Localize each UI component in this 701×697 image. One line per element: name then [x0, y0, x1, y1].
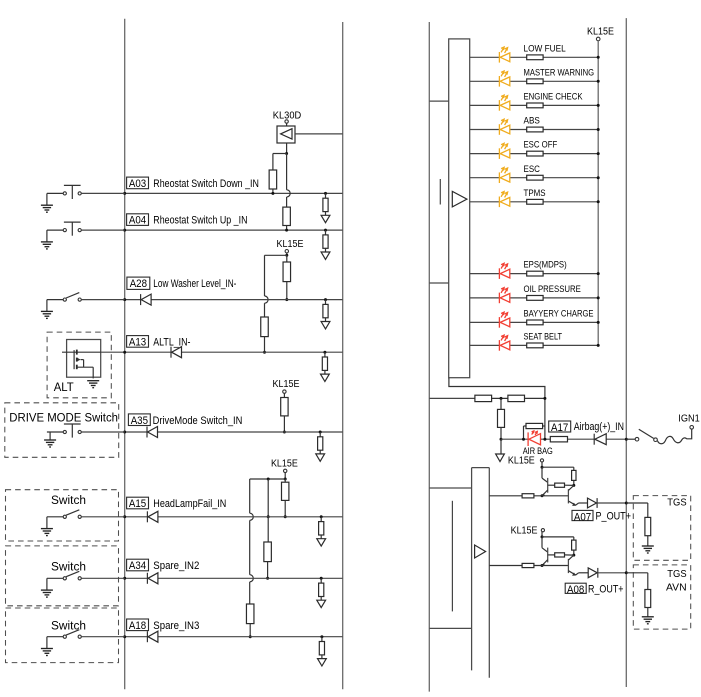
svg-text:Airbag(+)_IN: Airbag(+)_IN	[574, 421, 624, 433]
ground G7 (A18 switch)	[46, 637, 48, 649]
connector X2 key mark	[451, 501, 453, 612]
pin box A34	[127, 559, 149, 571]
svg-text:A34: A34	[129, 560, 146, 572]
wire: Q1 base	[548, 554, 555, 556]
node: KL15E-1 branch	[285, 254, 288, 257]
pin box A18	[127, 619, 149, 631]
wire: R to A04 row	[286, 226, 288, 231]
resistor R-ab1	[475, 395, 492, 401]
pin box A07	[572, 510, 593, 520]
resistor R-TGS2	[645, 590, 651, 608]
svg-text:IGN1: IGN1	[678, 413, 700, 424]
wire: R to node X	[573, 550, 575, 555]
diode D-A35	[146, 427, 148, 438]
svg-text:Rheostat Switch Up _IN: Rheostat Switch Up _IN	[153, 215, 247, 227]
wire: emitter to diode	[576, 573, 579, 575]
node: airbag on outer rail	[625, 438, 628, 441]
node: A34 bus junction	[123, 577, 126, 580]
lamp LED-yellow ESC OFF	[498, 148, 500, 159]
svg-text:A03: A03	[129, 178, 146, 190]
resistor R-ENGINE CHECK	[527, 103, 543, 108]
switch S6 (lever, A34)	[47, 577, 63, 579]
wire: left-section right vertical rail	[342, 22, 344, 689]
diode D-A34	[146, 573, 148, 584]
svg-text:SEAT BELT: SEAT BELT	[524, 332, 563, 343]
ground G4 (A35 switch)	[49, 432, 51, 440]
node: A15 bus junction	[123, 515, 126, 518]
wire: R to A03 row	[272, 189, 274, 193]
pin box A28	[127, 277, 150, 289]
wire: A13 row	[101, 351, 342, 353]
resistor R-A35 pull-up	[281, 398, 288, 416]
pin box A08	[565, 583, 586, 593]
wire: KL15E-3 stub	[284, 473, 286, 479]
dashed box Switch 2	[6, 546, 119, 606]
svg-text:ALT: ALT	[54, 382, 74, 394]
wire: KL15E stub	[541, 532, 543, 537]
wire: KL15E bus vertical	[597, 41, 599, 346]
resistor R-airbag parallel	[523, 426, 525, 439]
wire: Q1 base	[548, 484, 555, 486]
node: KL15E stage	[541, 466, 544, 469]
node: pull-up on A04	[285, 229, 288, 232]
diode D-airbag	[593, 434, 595, 445]
wire: Q1 collector	[541, 467, 543, 478]
wire: ABS row	[470, 129, 599, 131]
pin box A13	[127, 336, 149, 348]
svg-text:A13: A13	[129, 337, 146, 349]
svg-text:Spare_IN3: Spare_IN3	[153, 620, 199, 632]
node: branch tap x268.2	[267, 478, 270, 481]
wire: stage top rail	[542, 466, 574, 468]
resistor R-pulldown A35	[319, 431, 322, 434]
wire: stage top rail	[542, 536, 574, 538]
wire: coil squiggle to IGN1	[657, 429, 691, 444]
node: ENGINE CHECK on KL15E bus	[597, 104, 600, 107]
svg-text:A17: A17	[551, 422, 568, 434]
IC block U2 (output driver)	[472, 467, 490, 469]
wire: leg x268.2 down to A15	[267, 479, 269, 517]
wire: MASTER WARNING row	[470, 80, 599, 82]
node: pull-up on A34	[266, 577, 269, 580]
node: TPMS on KL15E bus	[597, 200, 600, 203]
terminal: airbag contact a	[626, 438, 635, 440]
wire: KL30D down to branch node	[286, 143, 288, 154]
node: airbag LED right	[543, 438, 546, 441]
connector X1 top edge	[429, 100, 448, 102]
wire: EPS(MDPS) row	[470, 273, 599, 275]
svg-text:P_OUT+: P_OUT+	[596, 511, 632, 523]
resistor R-pulldown A13	[323, 351, 326, 354]
wire: leg x249.7 between rows	[249, 520, 251, 574]
ground G-TGS2	[647, 608, 649, 617]
resistor R-pulldown A18	[320, 635, 323, 638]
dashed box TGS AVN	[633, 565, 690, 629]
node: pull-up on A13	[263, 351, 266, 354]
wire: leg x268.2 to R	[267, 517, 269, 542]
wire: R_OUT into TGS AVN	[626, 572, 648, 574]
lamp LED-red EPS(MDPS)	[498, 268, 500, 279]
node: LOW FUEL on KL15E bus	[597, 56, 600, 59]
switch S-IGN (blade)	[639, 429, 654, 438]
wire: R to node X 2	[565, 554, 574, 556]
wire: R to A15 row	[284, 500, 286, 516]
terminal KL15E stage	[541, 529, 544, 532]
switch S5 (lever, A15)	[47, 516, 63, 518]
wire: Q2 emitter	[568, 501, 575, 505]
lamp LED-red OIL PRESSURE	[498, 293, 500, 304]
dashed box ALT module	[47, 332, 111, 398]
node: pull-up on A35	[283, 431, 286, 434]
diode D-A13	[170, 347, 172, 358]
wire: R to node X	[573, 480, 575, 485]
wire: resistor row from rail	[429, 397, 475, 399]
svg-text:KL15E: KL15E	[587, 27, 614, 38]
wire: KL15E-1 stub	[286, 253, 288, 255]
wire: A15 row	[125, 516, 343, 518]
wire: hop to R-A04 pull-up	[286, 197, 288, 207]
svg-text:DRIVE MODE Switch: DRIVE MODE Switch	[9, 412, 118, 424]
diode D-out	[588, 568, 597, 578]
connector X2 top edge	[429, 487, 471, 489]
wire: branch right leg down	[286, 154, 288, 190]
wire: R to A13 row	[264, 337, 266, 353]
wire: KL15E-2 stub	[283, 393, 285, 397]
wire: Q1 emitter	[542, 560, 548, 566]
resistor R-ab3 (vertical)	[498, 409, 505, 427]
node: airbag row left	[500, 438, 503, 441]
resistor R-A34 pull-up	[264, 542, 272, 562]
lamp LED-red BAYYERY CHARGE	[498, 317, 500, 328]
node: X	[572, 554, 575, 557]
wire: left vertical bus	[124, 19, 126, 690]
dashed box Switch 1	[6, 490, 119, 541]
ground G-ALT	[87, 380, 99, 382]
node: pull-up on A18	[249, 635, 252, 638]
wire: leg x285.2 to R	[284, 479, 286, 482]
switch S7 (lever, A18)	[47, 636, 63, 638]
svg-text:KL15E: KL15E	[277, 239, 304, 250]
wire: A03 row	[125, 192, 343, 194]
node: ESC on KL15E bus	[597, 176, 600, 179]
wire: ab row to x544.9	[525, 397, 545, 399]
node: ab row tap	[500, 397, 503, 400]
wire: emitter to diode	[576, 503, 579, 505]
svg-text:Spare_IN2: Spare_IN2	[153, 560, 199, 572]
wire: base row	[489, 495, 568, 497]
buffer U-KL30D (box with left triangle)	[286, 123, 288, 126]
wire: SEAT BELT row	[470, 344, 599, 346]
svg-text:KL15E: KL15E	[271, 458, 298, 469]
node: A03 bus junction	[123, 192, 126, 195]
wire: ESC row	[470, 177, 599, 179]
IC block U1 (lamp driver)	[449, 39, 470, 378]
wire: base row	[489, 565, 568, 567]
wire: ENGINE CHECK row	[470, 104, 599, 106]
resistor R-ESC	[527, 175, 543, 180]
switch S4 (push-button, A35)	[47, 431, 63, 433]
lamp LED-yellow ESC	[498, 172, 500, 183]
ground G-TGS1	[647, 536, 649, 546]
resistor R-MASTER WARNING	[527, 79, 543, 84]
wire: leg x249.7 down	[249, 479, 251, 513]
switch S3 (lever, A28)	[47, 299, 63, 301]
pin box A04	[127, 214, 149, 226]
resistor R-A15 pull-up	[282, 482, 289, 500]
node: pull-up on A03	[271, 192, 274, 195]
dashed box DRIVE MODE Switch	[5, 403, 119, 458]
ground G6 (A34 switch)	[46, 578, 48, 590]
node: out on rail	[625, 571, 628, 574]
node: OIL PRESSURE on KL15E bus	[597, 296, 600, 299]
wire: branch to left leg x264.5	[265, 254, 287, 256]
node: base node	[541, 494, 544, 497]
resistor R-A03 pull-up	[269, 170, 277, 189]
terminal KL15E-2	[283, 390, 286, 393]
switch S2 (push-button, A04)	[47, 229, 63, 231]
resistor R-EPS(MDPS)	[527, 271, 543, 276]
wire: R to A18 row	[249, 624, 251, 637]
wire: A34 row	[125, 577, 343, 579]
ground G1 (A03 switch)	[46, 193, 48, 205]
wire hop over A28 row	[265, 296, 269, 303]
wire: A04 row	[125, 229, 343, 231]
node: BAYYERY CHARGE on KL15E bus	[597, 321, 600, 324]
wire: Q2 collector	[568, 485, 573, 490]
wire: ESC OFF row	[470, 153, 599, 155]
transistor Q2 bar	[567, 489, 569, 503]
node: A28 bus junction	[123, 298, 126, 301]
node: KL30D branch	[285, 152, 288, 155]
resistor R-BAYYERY CHARGE	[527, 320, 543, 325]
svg-text:BAYYERY CHARGE: BAYYERY CHARGE	[524, 309, 594, 320]
dashed box TGS	[633, 496, 690, 561]
lamp LED-yellow MASTER WARNING	[498, 76, 500, 87]
svg-text:Rheostat Switch Down _IN: Rheostat Switch Down _IN	[153, 178, 259, 190]
node: A35 bus junction	[123, 431, 126, 434]
svg-text:ESC: ESC	[524, 164, 541, 175]
wire: TPMS row	[470, 201, 599, 203]
diode D-A18	[146, 631, 148, 642]
buffer triangle U2	[475, 545, 486, 558]
ground G5 (A15 switch)	[46, 517, 48, 529]
wire: BAYYERY CHARGE row	[470, 321, 599, 323]
wire: R to node X 2	[565, 484, 574, 486]
terminal KL15E-3	[284, 469, 287, 472]
wire: A35 row	[125, 431, 343, 433]
wire: down to R pre-A13	[264, 303, 266, 317]
resistor R-pulldown A15	[320, 515, 323, 518]
wire: right-section left rail	[428, 22, 430, 692]
connector X2 bottom edge	[429, 627, 471, 629]
wire: Q2 emitter	[568, 571, 575, 575]
resistor R-stage vert	[572, 540, 576, 550]
resistor R-TGS1	[645, 517, 651, 535]
wire: R-ab3 to airbag row	[500, 427, 502, 439]
wire: Q1 emitter	[542, 490, 548, 496]
wire: diode to rail	[598, 572, 627, 574]
svg-text:Switch: Switch	[51, 495, 86, 507]
resistor R-TPMS	[527, 199, 543, 204]
pin box A03	[127, 177, 149, 189]
diode D-A15	[146, 511, 148, 522]
svg-text:ALTL_IN-: ALTL_IN-	[153, 337, 190, 349]
wire: branch left leg	[273, 153, 287, 155]
resistor R-OIL PRESSURE	[527, 296, 543, 301]
node: A04 bus junction	[123, 229, 126, 232]
connector X1 bottom edge	[429, 282, 448, 284]
wire: OIL PRESSURE row	[470, 297, 599, 299]
svg-text:ESC OFF: ESC OFF	[524, 140, 558, 151]
wire: branch horizontal to x249.7	[250, 478, 286, 480]
resistor R-LOW FUEL	[527, 55, 543, 60]
wire: Q1 collector	[541, 537, 543, 548]
ground arrow (airbag)	[500, 439, 502, 454]
svg-text:AVN: AVN	[666, 583, 687, 594]
terminal KL30D	[285, 120, 288, 123]
svg-text:TGS: TGS	[667, 498, 687, 509]
node: X	[572, 484, 575, 487]
node: base node	[541, 564, 544, 567]
node: KL15E-3 branch	[284, 478, 287, 481]
svg-text:ENGINE CHECK: ENGINE CHECK	[524, 92, 584, 103]
svg-text:A18: A18	[129, 620, 146, 632]
node: tap on A15 row	[267, 515, 270, 518]
wire: U1 bottom exit to airbag feed	[449, 378, 545, 440]
resistor R-A13 pull-up	[261, 317, 269, 337]
ground G3 (A28 switch)	[46, 300, 48, 312]
node: A13 bus junction	[123, 351, 126, 354]
resistor R-stage vert	[572, 470, 576, 480]
lamp LED-yellow LOW FUEL	[498, 52, 500, 63]
svg-text:Switch: Switch	[51, 621, 86, 633]
wire: airbag row	[501, 438, 626, 440]
resistor R-pulldown A04	[324, 229, 327, 232]
resistor R-ABS	[527, 127, 543, 132]
svg-text:R_OUT+: R_OUT+	[588, 583, 624, 595]
resistor R-A04 pull-up	[283, 207, 291, 225]
svg-text:A08: A08	[567, 584, 584, 596]
transistor Q1 bar	[547, 478, 549, 493]
pin box A15	[127, 497, 149, 509]
wire: between ab resistors	[492, 397, 508, 399]
svg-text:Switch: Switch	[51, 562, 86, 574]
terminal IGN1	[690, 426, 694, 430]
svg-text:A28: A28	[130, 278, 147, 290]
wire hop over A34 row	[250, 575, 254, 582]
svg-text:HeadLampFail_IN: HeadLampFail_IN	[153, 498, 226, 510]
svg-text:DriveMode Switch_IN: DriveMode Switch_IN	[153, 415, 243, 427]
lamp LED-red SEAT BELT	[498, 340, 500, 351]
wire: KL30D box to right rail	[295, 133, 343, 135]
wire: A28 row	[125, 299, 343, 301]
wire: P_OUT into TGS	[626, 502, 648, 504]
node: A18 bus junction	[123, 635, 126, 638]
lamp LED-yellow TPMS	[498, 197, 500, 208]
svg-text:KL15E: KL15E	[508, 455, 535, 466]
node: ab row right	[543, 397, 546, 400]
svg-text:KL15E: KL15E	[273, 379, 300, 390]
lamp LED-yellow ABS	[498, 124, 500, 135]
resistor R-airbag series	[550, 437, 567, 442]
resistor R-ESC OFF	[527, 151, 543, 156]
resistor R-base	[522, 494, 534, 498]
svg-text:LOW FUEL: LOW FUEL	[524, 43, 566, 54]
pin box A35	[128, 414, 150, 426]
node: EPS(MDPS) on KL15E bus	[597, 272, 600, 275]
transistor Q2 bar	[567, 559, 569, 573]
svg-text:TPMS: TPMS	[524, 188, 546, 199]
node: airbag LED left	[522, 438, 525, 441]
diode D-out	[588, 498, 597, 508]
wire: KL15E stub	[541, 462, 543, 467]
terminal KL15E top	[596, 37, 600, 41]
node: SEAT BELT on KL15E bus	[597, 344, 600, 347]
wire: R to A28 row	[286, 282, 288, 300]
ground G2 (A04 switch)	[46, 230, 48, 242]
resistor R-ab2	[508, 395, 525, 401]
dashed box Switch 3	[6, 608, 119, 663]
node: ABS on KL15E bus	[597, 128, 600, 131]
pin box A17	[549, 421, 571, 432]
svg-text:TGS: TGS	[667, 569, 687, 580]
wire: A18 row	[125, 636, 343, 638]
node: MASTER WARNING on KL15E bus	[597, 80, 600, 83]
terminal KL15E-1	[285, 250, 288, 253]
wire hop over A15 row	[250, 513, 254, 520]
node: KL15E stage	[541, 535, 544, 538]
terminal KL15E stage	[540, 459, 543, 462]
svg-text:KL15E: KL15E	[511, 525, 538, 536]
terminal: airbag contact b	[654, 438, 658, 442]
connector X1 key mark	[439, 179, 441, 205]
lamp LED-red AIR BAG	[527, 432, 529, 446]
wire: diode to rail	[597, 502, 626, 504]
switch S1 (push-button, A03)	[47, 192, 63, 194]
svg-text:A04: A04	[129, 215, 146, 227]
svg-text:A35: A35	[131, 415, 148, 427]
resistor R-A18 pull-up	[246, 604, 254, 624]
resistor R-base	[522, 563, 534, 567]
svg-text:ABS: ABS	[524, 116, 540, 127]
resistor R-SEAT BELT	[527, 343, 543, 348]
resistor R-pulldown A34	[320, 577, 323, 580]
resistor R-stage horiz	[555, 553, 565, 557]
resistor R-A28 pull-up	[283, 262, 291, 282]
transistor Q1 bar	[547, 548, 549, 563]
lamp LED-yellow ENGINE CHECK	[498, 100, 500, 111]
wire: KL15E-1 right leg down	[286, 255, 288, 262]
svg-text:A07: A07	[574, 511, 591, 523]
svg-text:Low Washer Level_IN-: Low Washer Level_IN-	[153, 278, 236, 290]
wire: R to A34 row	[267, 562, 269, 579]
svg-text:EPS(MDPS): EPS(MDPS)	[524, 260, 567, 271]
svg-text:OIL PRESSURE: OIL PRESSURE	[524, 284, 581, 295]
resistor R-stage horiz	[555, 483, 565, 487]
node: out on rail	[625, 502, 628, 505]
wire: leg x249.7 to R	[249, 582, 251, 604]
wire: Q2 collector	[568, 555, 573, 560]
svg-text:A15: A15	[129, 498, 146, 510]
node: pull-up on A28	[285, 298, 288, 301]
wire: R to A35 row	[283, 416, 285, 432]
wire: tap down to airbag row	[500, 398, 502, 409]
resistor R-pulldown A28	[324, 298, 327, 301]
svg-text:MASTER WARNING: MASTER WARNING	[524, 67, 595, 78]
transistor Q-ALT (MOSFET in box)	[67, 340, 101, 378]
wire: LOW FUEL row	[470, 56, 599, 58]
buffer triangle U1	[452, 191, 467, 207]
